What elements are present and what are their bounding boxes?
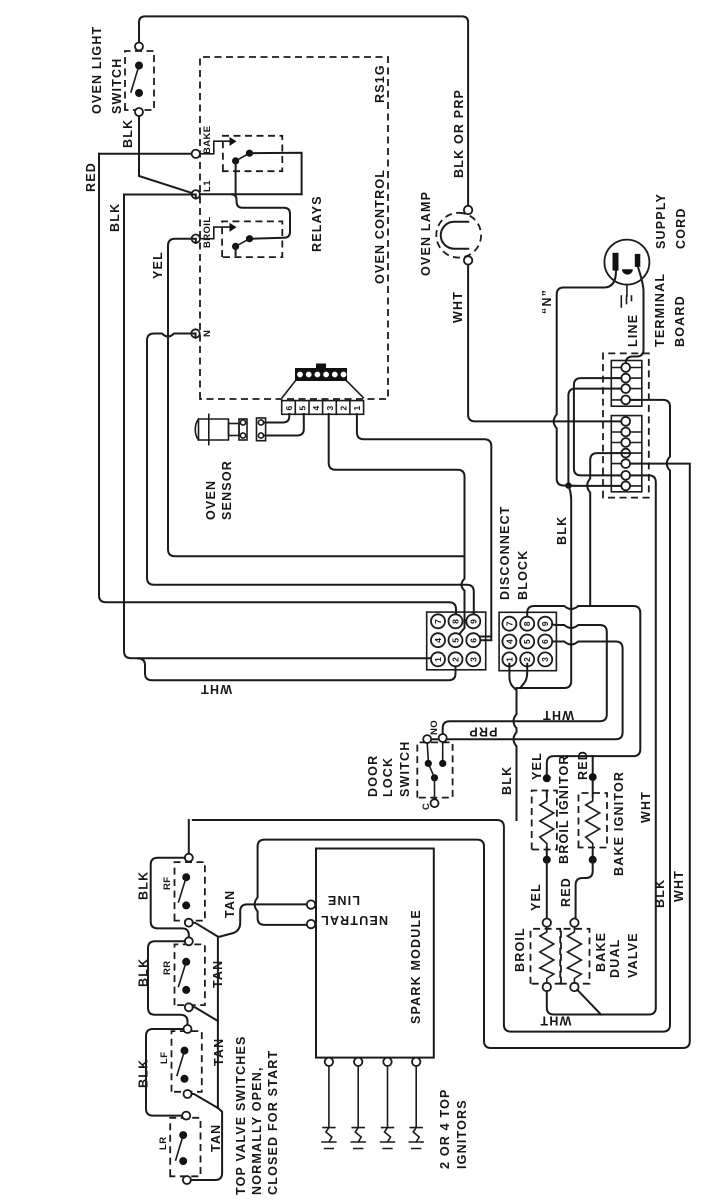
wire BLK bus from row7 junction to door lock join	[522, 486, 572, 689]
terminal L1	[192, 190, 200, 198]
svg-text:PRP: PRP	[468, 725, 497, 739]
svg-text:WHT: WHT	[542, 708, 574, 722]
terminal board dashed outline	[603, 353, 649, 497]
svg-text:LINE: LINE	[626, 314, 640, 347]
svg-text:BLK: BLK	[653, 879, 667, 908]
svg-text:BLK: BLK	[137, 1059, 151, 1088]
svg-text:9: 9	[540, 621, 550, 626]
electrode output wire 3	[381, 1066, 395, 1149]
svg-text:2 OR 4 TOP: 2 OR 4 TOP	[438, 1088, 452, 1169]
svg-text:LF: LF	[159, 1052, 170, 1064]
svg-text:BAKE IGNITOR: BAKE IGNITOR	[612, 771, 626, 876]
wire LF bottom to TAN chain	[192, 1094, 218, 1108]
svg-text:RED: RED	[559, 877, 573, 907]
svg-text:WHT: WHT	[200, 682, 232, 696]
label OVEN SENSOR	[204, 460, 234, 520]
wire A-bus: upper4 to RF/door C run	[193, 400, 670, 1032]
svg-text:BLK: BLK	[121, 119, 135, 148]
svg-text:4: 4	[311, 406, 321, 411]
electrode output wire 4	[409, 1066, 423, 1149]
wire RED rail	[99, 154, 456, 617]
svg-text:6: 6	[468, 638, 478, 643]
svg-text:RED: RED	[576, 750, 590, 780]
wire disconnect 1' 2' to BLK door lock feed	[509, 664, 527, 820]
connector plug body (6 contacts)	[282, 364, 363, 398]
wire RF bottom to TAN chain	[193, 923, 218, 937]
wire from disconnect 6' to door lock common side	[431, 642, 622, 740]
svg-text:RELAYS: RELAYS	[310, 195, 324, 252]
bake ignitor node dots	[589, 773, 597, 781]
svg-text:1: 1	[352, 406, 362, 411]
door lock switch S2	[417, 734, 452, 807]
svg-text:BOARD: BOARD	[673, 295, 687, 347]
spark module NEUTRAL terminal	[307, 920, 315, 928]
wire C-bus: lower5 NEUTRAL run	[255, 464, 690, 1048]
svg-text:WHT: WHT	[451, 291, 465, 323]
svg-text:DUAL: DUAL	[608, 938, 622, 978]
svg-text:7: 7	[504, 621, 514, 626]
wire BLK chain RR to LF	[148, 941, 188, 1025]
bake ignitor dashed box	[579, 793, 608, 848]
svg-text:YEL: YEL	[529, 883, 543, 911]
junction dot row7	[565, 482, 571, 488]
svg-text:5: 5	[522, 639, 532, 644]
svg-text:C: C	[421, 803, 432, 810]
wire from connector pin1 to disconnect 6	[357, 414, 491, 640]
wire upper3 to row7 junction	[568, 389, 621, 486]
spark module output terminals	[325, 1058, 421, 1066]
svg-text:NORMALLY OPEN,: NORMALLY OPEN,	[250, 1066, 264, 1195]
electrode output wire 2	[351, 1066, 365, 1149]
svg-text:BLK: BLK	[108, 203, 122, 232]
bake relay output rail	[250, 153, 302, 194]
top valve switch LR	[170, 1112, 200, 1184]
wire BLK rail from L1 to disconnect 1	[124, 195, 434, 659]
wire LINE terminal to top valve feed (TAN)	[220, 904, 307, 936]
svg-text:3: 3	[540, 657, 550, 662]
svg-text:“N”: “N”	[540, 289, 554, 314]
svg-text:1: 1	[433, 657, 443, 662]
wire from connector pin3 to disconnect 5	[329, 414, 465, 637]
svg-text:RR: RR	[162, 960, 173, 975]
label TOP VALVE SWITCHES NORMALLY OPEN CLOSED FOR START	[234, 1035, 280, 1195]
svg-text:BLK: BLK	[500, 766, 514, 795]
svg-text:RS1G: RS1G	[373, 64, 387, 103]
svg-text:YEL: YEL	[530, 752, 544, 780]
svg-text:NO: NO	[429, 720, 440, 735]
svg-text:9: 9	[468, 619, 478, 624]
svg-text:BLK: BLK	[137, 871, 151, 900]
broil ignitor node dots	[543, 774, 551, 782]
broil ignitor resistor element	[540, 797, 554, 848]
spark module U1 box	[316, 849, 434, 1058]
broil relay K2 box	[222, 221, 282, 257]
label TERMINAL BOARD	[653, 273, 687, 347]
wire sensor to pin6	[264, 414, 290, 423]
svg-text:BLK OR PRP: BLK OR PRP	[452, 89, 466, 178]
svg-text:WHT: WHT	[639, 791, 653, 823]
bake relay wire from BAKE terminal with actuator arrow	[200, 141, 233, 154]
svg-text:CLOSED FOR START: CLOSED FOR START	[266, 1050, 280, 1195]
disconnect block left half	[427, 612, 486, 670]
svg-text:2: 2	[451, 657, 461, 662]
svg-text:2: 2	[522, 657, 532, 662]
label DOOR LOCK SWITCH	[366, 741, 412, 798]
svg-text:SPARK MODULE: SPARK MODULE	[409, 909, 423, 1024]
svg-text:OVEN LIGHT: OVEN LIGHT	[90, 26, 104, 114]
svg-text:NEUTRAL: NEUTRAL	[320, 913, 388, 927]
oven control dashed box	[200, 57, 388, 399]
svg-text:TAN: TAN	[209, 1124, 223, 1152]
svg-text:DISCONNECT: DISCONNECT	[498, 505, 512, 600]
label 2 OR 4 TOP IGNITORS	[438, 1088, 469, 1169]
wire WHT lamp to terminal board 1	[468, 265, 621, 422]
svg-text:2: 2	[339, 406, 349, 411]
svg-text:RF: RF	[162, 877, 173, 890]
svg-text:8: 8	[522, 621, 532, 626]
oven lamp DS1	[436, 206, 481, 265]
svg-text:8: 8	[451, 619, 461, 624]
svg-text:BAKE: BAKE	[202, 125, 213, 154]
wire RR bottom to TAN chain	[193, 1007, 218, 1021]
svg-text:5: 5	[298, 406, 308, 411]
terminal BAKE	[192, 150, 200, 158]
svg-text:LOCK: LOCK	[381, 757, 395, 797]
wire from disconnect 8' to ignitors	[527, 606, 640, 774]
broil relay wire from BROIL terminal with actuator arrow	[200, 227, 233, 239]
bake relay K1 box	[223, 136, 282, 171]
terminal N	[191, 329, 199, 337]
svg-text:5: 5	[451, 638, 461, 643]
label DISCONNECT BLOCK	[498, 505, 530, 600]
wire: BAKE rail from RED rail to BAKE terminal	[99, 153, 192, 155]
bake ignitor resistor element	[586, 797, 600, 848]
disconnect block right half	[499, 612, 556, 670]
wire BLK chain LF to LR	[146, 1029, 184, 1116]
top valve switch RF	[175, 854, 205, 927]
terminal BROIL	[192, 235, 200, 243]
wire B-bus: lower6 to dual valve common	[554, 475, 656, 1014]
svg-text:BROIL: BROIL	[513, 927, 527, 972]
wire N rail to disconnect 9	[147, 334, 474, 617]
svg-text:BLOCK: BLOCK	[516, 550, 530, 600]
wire row7 junction to lower7	[568, 485, 621, 487]
svg-text:OVEN CONTROL: OVEN CONTROL	[373, 169, 387, 284]
oven light switch S1	[125, 43, 154, 117]
supply cord plug P1	[604, 240, 649, 285]
svg-text:SENSOR: SENSOR	[220, 460, 234, 520]
oven sensor connector halves	[239, 418, 266, 441]
L1 rail	[200, 193, 302, 195]
svg-text:BROIL IGNITOR: BROIL IGNITOR	[557, 754, 571, 864]
svg-text:TOP VALVE SWITCHES: TOP VALVE SWITCHES	[234, 1035, 248, 1195]
wire BLK chain RF to RR	[151, 858, 189, 937]
svg-text:WHT: WHT	[672, 870, 686, 902]
broil relay contacts and arm	[246, 235, 253, 242]
ground symbol (supply)	[621, 285, 631, 307]
svg-text:RED: RED	[84, 162, 98, 192]
svg-text:WHT: WHT	[539, 1014, 571, 1028]
wire upper2 to lower6	[574, 378, 621, 475]
connector strip pins 6-1	[282, 401, 364, 415]
wire RF top to A-line	[188, 820, 190, 854]
electrode output wire 1	[322, 1066, 336, 1149]
wire lower4 to ignitor feed junction	[587, 453, 630, 606]
svg-text:IGNITORS: IGNITORS	[455, 1099, 469, 1169]
svg-text:BROIL: BROIL	[202, 216, 213, 248]
terminal board lower block (7 terminals)	[611, 416, 642, 492]
wire WHT branch to disconnect 2	[138, 658, 456, 680]
svg-text:OVEN: OVEN	[204, 480, 218, 520]
label SUPPLY CORD	[654, 193, 688, 249]
svg-text:VALVE: VALVE	[626, 932, 640, 978]
wire stub to bake ignitor (RED)	[592, 756, 594, 773]
svg-text:SWITCH: SWITCH	[398, 741, 412, 798]
top valve switch LF	[172, 1025, 202, 1098]
svg-text:CORD: CORD	[674, 207, 688, 249]
wire fork from L1 rail to broil relay arm	[232, 194, 290, 238]
svg-text:DOOR: DOOR	[366, 755, 380, 797]
svg-text:6: 6	[284, 406, 294, 411]
wire "N" from plug to terminal board row7 line	[554, 271, 616, 486]
oven sensor RT1 bulb	[195, 414, 239, 444]
svg-text:3: 3	[325, 406, 335, 411]
svg-text:N: N	[202, 330, 213, 337]
wire: switch top to lamp feed (BLK OR PRP run)	[139, 16, 468, 209]
wire LINE from plug to terminal board	[626, 267, 644, 364]
svg-text:LR: LR	[158, 1137, 169, 1150]
svg-text:SUPPLY: SUPPLY	[654, 193, 668, 249]
wire sensor to pin5	[264, 414, 304, 436]
svg-text:OVEN LAMP: OVEN LAMP	[419, 191, 433, 276]
label OVEN LIGHT SWITCH	[90, 26, 124, 114]
svg-text:YEL: YEL	[151, 251, 165, 279]
svg-text:TAN: TAN	[223, 890, 237, 918]
bake relay pivot rail to L1 rail	[235, 161, 237, 194]
svg-text:TERMINAL: TERMINAL	[653, 273, 667, 347]
svg-text:4: 4	[433, 638, 443, 643]
bake relay contacts and arm	[246, 150, 253, 157]
svg-text:1: 1	[504, 657, 514, 662]
svg-text:TAN: TAN	[212, 1038, 226, 1066]
wire from disconnect 9' to door lock NO (PRP)	[443, 625, 607, 735]
dual valve broil coil	[531, 919, 561, 992]
wire bake ignitor to bake valve coil (RED)	[574, 860, 592, 919]
svg-text:6: 6	[540, 639, 550, 644]
broil relay pivot tail	[235, 246, 237, 255]
svg-text:BLK: BLK	[555, 516, 569, 545]
wire: switch bottom BLK down to junction and L1 diagonal	[139, 116, 196, 194]
top valve switch RR	[175, 937, 205, 1011]
svg-text:LINE: LINE	[327, 893, 360, 907]
terminal board upper block (4 terminals)	[611, 361, 642, 407]
svg-text:7: 7	[433, 619, 443, 624]
svg-text:4: 4	[504, 639, 514, 644]
svg-text:3: 3	[468, 657, 478, 662]
wire broil ignitor to broil valve coil (YEL)	[546, 860, 548, 919]
svg-text:SWITCH: SWITCH	[110, 58, 124, 115]
wire valve common WHT loop	[547, 990, 601, 1015]
label DUAL VALVE	[608, 932, 640, 978]
dual valve bake coil	[561, 919, 590, 992]
wire YEL rail	[168, 239, 465, 557]
spark module LINE terminal	[307, 900, 315, 908]
broil ignitor dashed box	[532, 791, 557, 850]
svg-text:L1: L1	[202, 180, 213, 192]
wire TAN chain spine	[191, 937, 222, 1180]
svg-text:BAKE: BAKE	[594, 932, 608, 972]
